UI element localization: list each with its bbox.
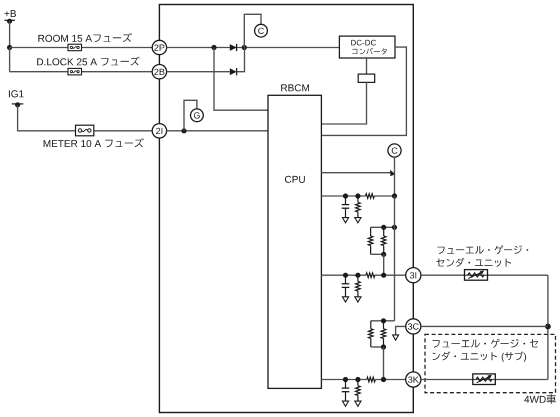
transistor Q1 base wire	[321, 172, 391, 174]
junction row2 a	[343, 273, 348, 278]
wire parallel cluster1 top bar	[371, 226, 395, 228]
terminal C (right)	[388, 144, 401, 157]
outer box RBCM module frame	[159, 5, 413, 413]
capacitor C2	[342, 275, 350, 297]
terminal G hook	[184, 100, 197, 131]
fuel gauge sender resistor	[465, 270, 488, 281]
wire 2P to DC-DC	[167, 47, 340, 49]
wire 2I to CPU	[167, 130, 268, 132]
label ROOM 15 A fuse	[38, 33, 131, 42]
wire D2 output up to node	[237, 48, 245, 72]
arrow out 3C	[393, 335, 399, 340]
wire 2P branch down to CPU	[214, 48, 268, 111]
junction +B / ROOM branch	[7, 45, 12, 50]
terminal G	[191, 109, 204, 122]
junction row2 b	[355, 273, 360, 278]
junction cluster1 main	[392, 225, 397, 230]
resistor R4	[381, 227, 386, 254]
wire sender right vertical	[547, 275, 549, 379]
resistor R6 series row2	[366, 273, 375, 278]
ground arrow C2	[342, 297, 348, 302]
junction row1 main	[392, 193, 397, 198]
label fuel gauge sender line1	[437, 245, 528, 254]
wire IG1 feed	[18, 105, 153, 131]
wire +B to D.LOCK	[9, 48, 11, 72]
ground arrow R5	[355, 297, 361, 302]
junction 2P branch	[211, 45, 216, 50]
wire 3K to sub sender	[421, 379, 548, 381]
fuel gauge sub sender resistor	[473, 374, 496, 385]
capacitor C1	[342, 196, 350, 218]
resistor R8	[381, 321, 386, 347]
wire DC-DC branch to CPU	[321, 82, 366, 124]
resistor R3	[368, 227, 373, 254]
connector 3I	[406, 268, 421, 283]
label METER 10 A fuse	[44, 138, 144, 147]
resistor R7	[369, 321, 374, 347]
power terminal IG1	[9, 90, 24, 107]
resistor R10 series row3	[367, 377, 376, 382]
fuse METER 10A	[76, 125, 94, 136]
junction 3C / sender	[545, 324, 551, 330]
terminal C (top)	[255, 24, 268, 37]
power terminal +B	[5, 10, 17, 24]
CPU box	[268, 95, 321, 388]
connector 2I	[152, 124, 166, 138]
capacitor C3	[342, 380, 350, 402]
diode D1	[230, 44, 237, 51]
DC-DC converter box	[339, 36, 395, 58]
label konbata	[352, 48, 387, 55]
wire cluster1 to 3I net	[383, 254, 385, 275]
wire 3C to sender net	[421, 325, 548, 327]
fuse ROOM 15A	[68, 44, 82, 51]
label fuel sub sender line1	[433, 339, 539, 348]
wire CPU row2 to 3I	[321, 274, 405, 276]
junction cluster1 bottom	[381, 252, 386, 257]
junction row3 b	[355, 377, 360, 382]
connector 2B	[152, 65, 166, 79]
wire +B vertical	[9, 21, 11, 47]
resistor R9	[356, 380, 361, 402]
main vertical net	[394, 170, 396, 196]
wire 3I to sender	[421, 274, 548, 276]
wire parallel cluster2 bottom bar	[371, 346, 384, 348]
junction cluster2 bottom	[381, 344, 386, 349]
wire C collector	[394, 157, 396, 170]
resistor R2 series row1	[366, 194, 375, 199]
connector 3K	[406, 372, 421, 387]
label D.LOCK 25 A fuse	[37, 57, 139, 66]
junction row1 a	[343, 193, 348, 198]
junction row2 c	[381, 273, 386, 278]
wire 2B to diode D2	[167, 71, 230, 73]
wire CPU row3 to 3K	[321, 379, 405, 381]
dashed box 4WD option	[425, 334, 556, 392]
junction diode outputs node	[242, 45, 247, 50]
wire DC-DC right loop to CPU	[321, 47, 406, 135]
junction cluster1 top	[381, 225, 386, 230]
wire ROOM feed	[10, 47, 153, 49]
junction cluster2 top	[381, 318, 386, 323]
main vertical net mid	[394, 196, 396, 321]
resistor R5	[356, 275, 361, 297]
label CPU	[285, 176, 305, 183]
wire CPU row1	[321, 195, 394, 197]
wire parallel cluster1 bottom bar	[371, 253, 384, 255]
label fuel gauge sender line2	[436, 258, 511, 267]
transistor Q1 emitter arrow	[390, 170, 395, 176]
junction row3 a	[343, 377, 348, 382]
ground arrow C3	[342, 401, 348, 406]
connector 3C	[406, 319, 421, 334]
ground arrow R9	[355, 401, 361, 406]
fuse D.LOCK 25A	[68, 68, 82, 75]
resistor R1	[356, 196, 361, 218]
diode D2	[230, 68, 237, 75]
wire 3C stub	[396, 326, 406, 335]
ground arrow C1	[342, 218, 348, 223]
ground arrow R1	[355, 218, 361, 223]
terminal C top hook	[244, 14, 261, 47]
label fuel sub sender line2	[433, 352, 526, 362]
junction row1 b	[355, 193, 360, 198]
junction row3 c	[381, 377, 386, 382]
label 4WD car	[524, 394, 556, 403]
wire cluster2 to 3K net	[383, 347, 385, 380]
junction G branch	[181, 128, 186, 133]
wire DC-DC bottom	[366, 58, 368, 74]
wire main elbow to cluster2	[371, 320, 395, 322]
wire D.LOCK feed	[10, 71, 153, 73]
component below DC-DC	[358, 74, 375, 82]
connector 2P	[152, 40, 166, 54]
label RBCM	[281, 84, 309, 91]
label DC-DC	[351, 40, 376, 46]
